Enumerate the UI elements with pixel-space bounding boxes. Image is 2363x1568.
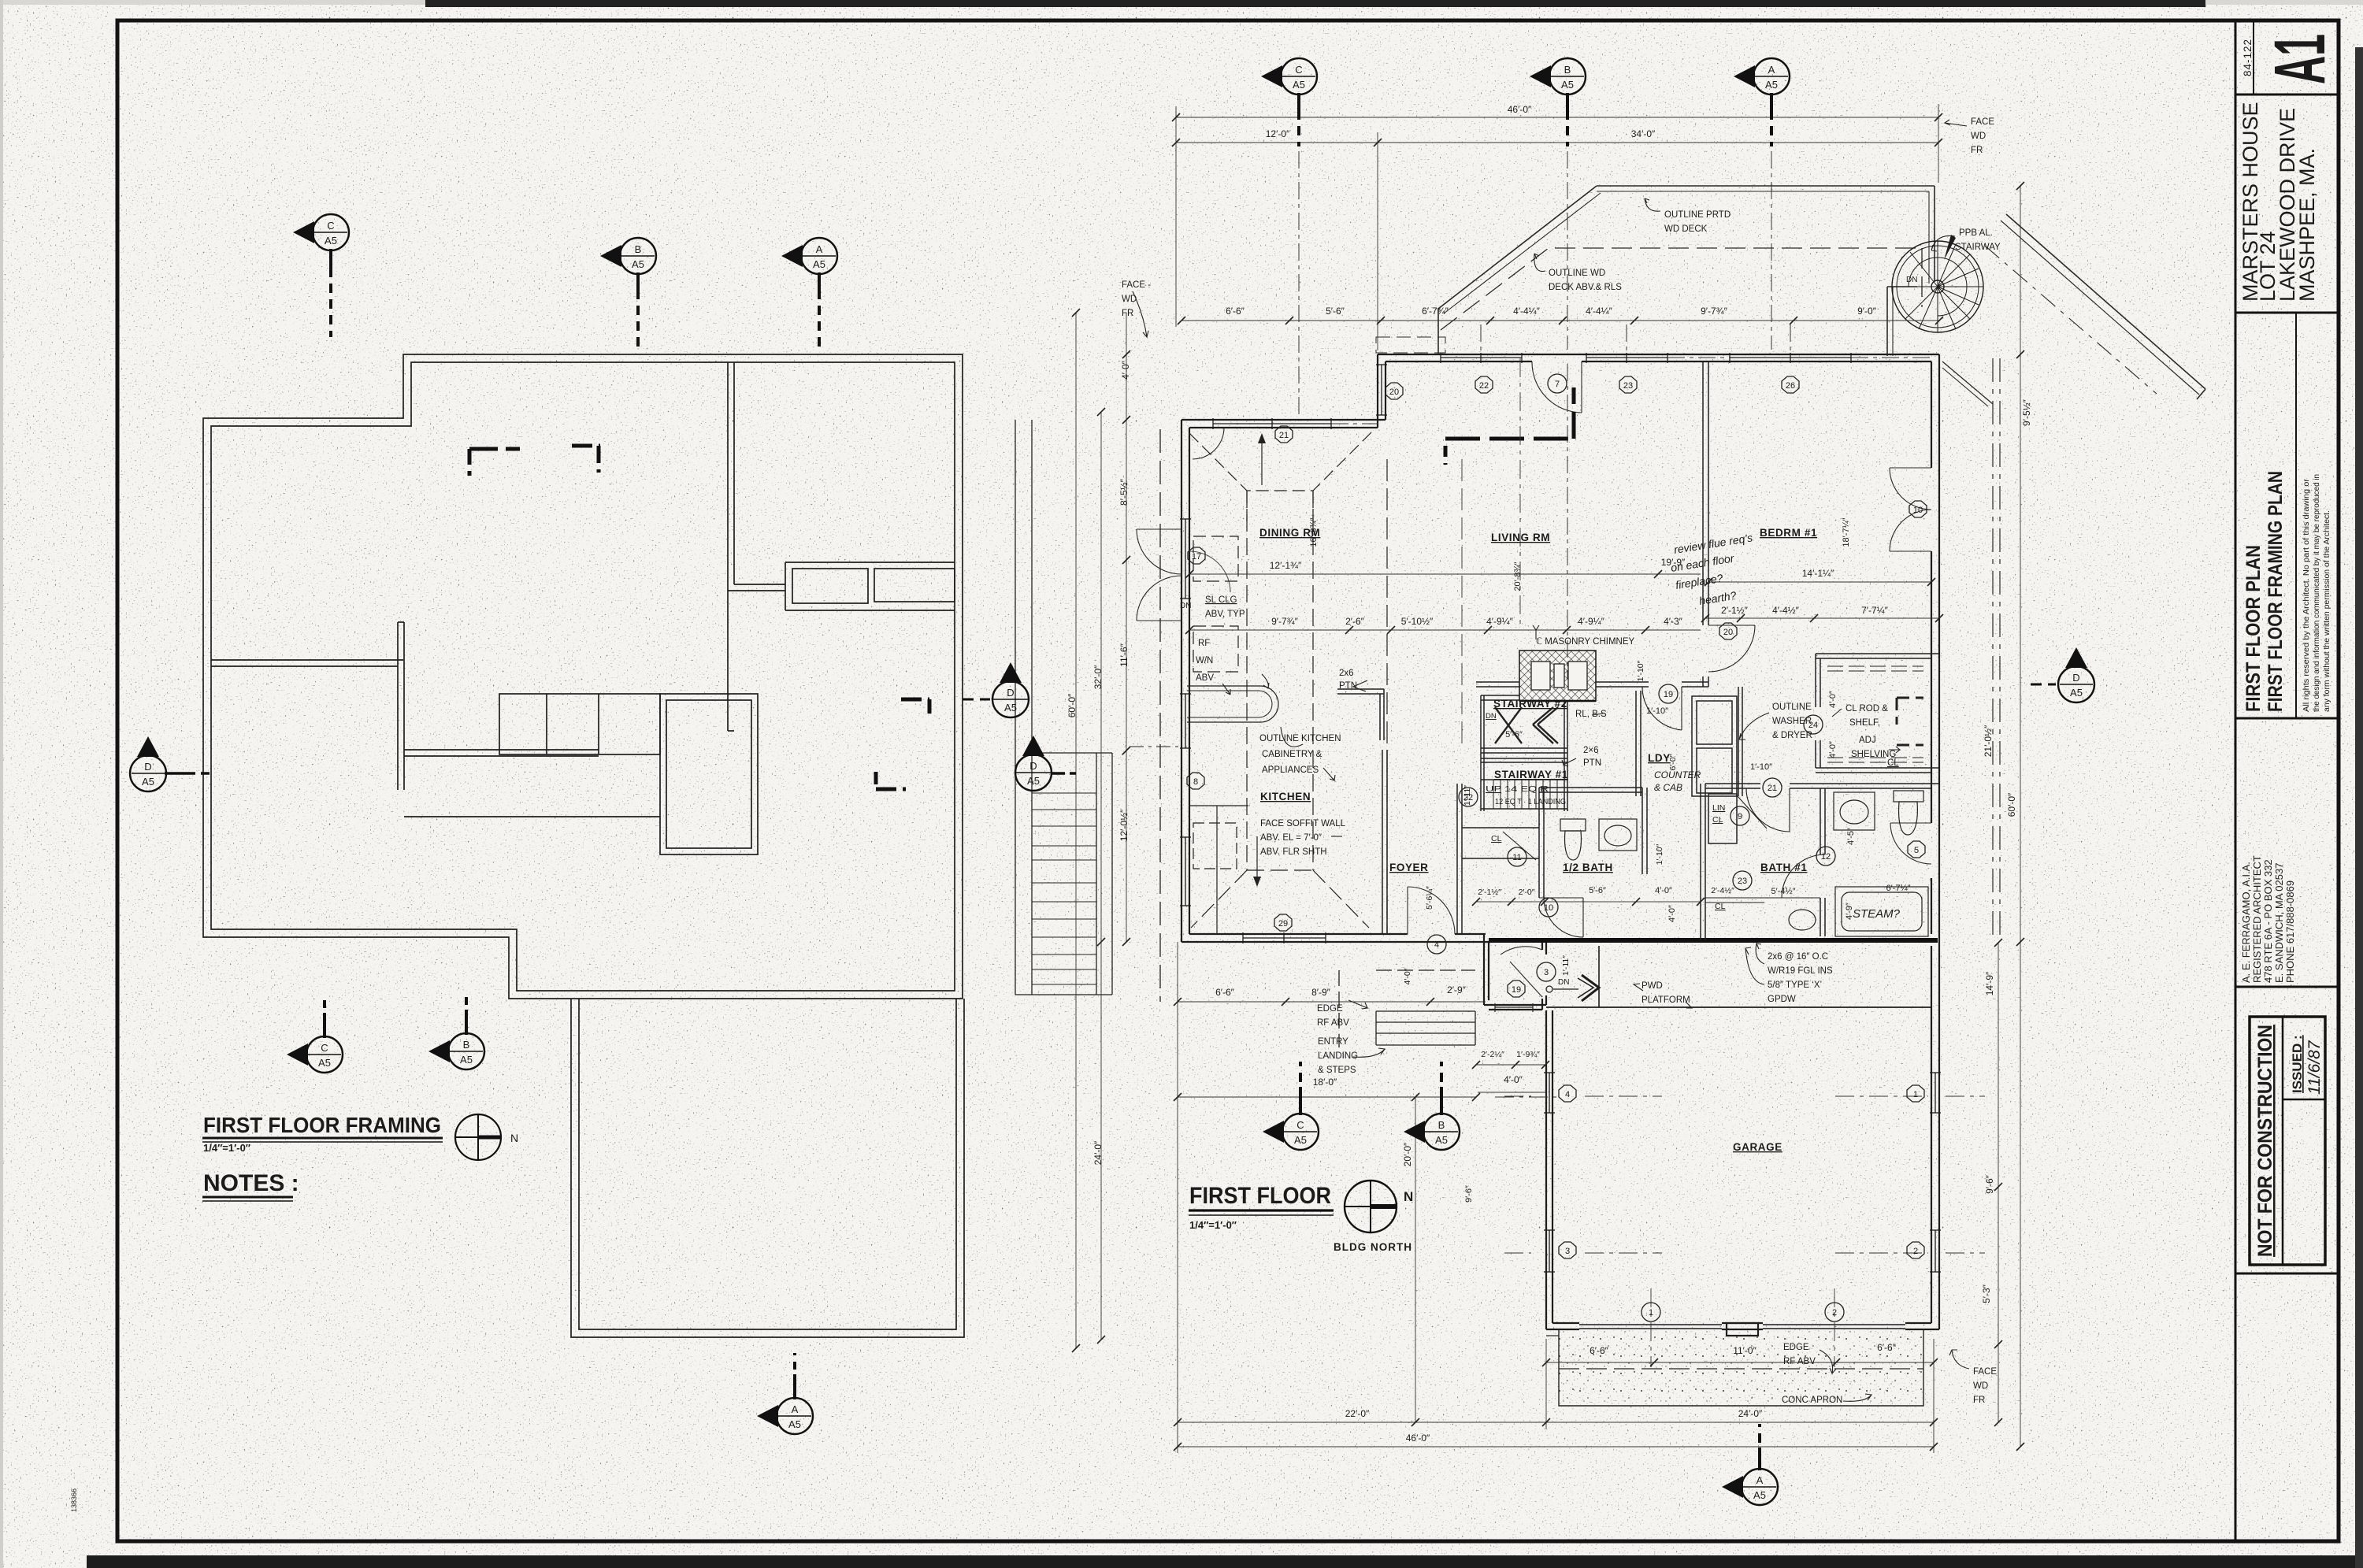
svg-text:6′-7¼″: 6′-7¼″ (1886, 884, 1910, 893)
garage south wall with 2 door openings (1546, 1329, 1579, 1330)
svg-text:C: C (1295, 64, 1302, 76)
svg-text:BEDRM #1: BEDRM #1 (1760, 527, 1817, 539)
dining north wall (1181, 419, 1386, 421)
svg-text:2: 2 (1832, 1308, 1837, 1318)
svg-text:24′-0″: 24′-0″ (1738, 1408, 1763, 1419)
svg-text:A: A (792, 1403, 799, 1415)
svg-text:1′-10″: 1′-10″ (1655, 843, 1664, 865)
svg-text:23: 23 (1738, 877, 1747, 886)
svg-text:ABV: ABV (1196, 673, 1214, 683)
svg-text:WD: WD (1973, 1381, 1988, 1391)
svg-text:CL: CL (1712, 815, 1723, 825)
svg-text:9′-5½″: 9′-5½″ (2021, 398, 2032, 426)
center-bottom room (660, 694, 758, 854)
svg-text:4′-4¼″: 4′-4¼″ (1586, 306, 1613, 317)
dashed deck above outline (1441, 248, 1922, 330)
svg-text:4: 4 (1565, 1090, 1570, 1099)
chimney (1519, 651, 1596, 701)
svg-text:PWD: PWD (1641, 981, 1663, 991)
svg-text:A5: A5 (813, 258, 825, 270)
svg-text:FR: FR (1122, 309, 1133, 318)
svg-text:ABV. FLR SHTH: ABV. FLR SHTH (1260, 847, 1327, 857)
svg-text:2′-1½″: 2′-1½″ (1721, 605, 1749, 616)
interior partitions (1337, 361, 1939, 940)
svg-text:A5: A5 (1561, 79, 1574, 91)
handwritten notes (1654, 531, 1901, 921)
svg-text:B: B (1438, 1119, 1445, 1131)
2x6 ptn dining/kitchen (1337, 688, 1384, 690)
svg-text:ISSUED :: ISSUED : (2290, 1035, 2305, 1093)
main plan bottom B (1404, 1062, 1460, 1150)
svg-text:5′-4½″: 5′-4½″ (1771, 887, 1795, 896)
svg-text:2x6 @ 16″ O.C: 2x6 @ 16″ O.C (1768, 952, 1828, 962)
svg-text:1′-9¾″: 1′-9¾″ (1516, 1050, 1540, 1059)
dim tick marks (slashes) (1072, 113, 2024, 1451)
svg-text:PHONE 617/888-0869: PHONE 617/888-0869 (2284, 880, 2296, 983)
svg-text:PLATFORM: PLATFORM (1641, 995, 1690, 1005)
svg-text:EDGE: EDGE (1783, 1343, 1809, 1352)
thick L balcony line living room (1445, 387, 1574, 465)
svg-text:14′-1¼″: 14′-1¼″ (1802, 568, 1834, 579)
svg-text:24′-0″: 24′-0″ (1092, 1140, 1104, 1165)
svg-text:11/6/87: 11/6/87 (2306, 1040, 2324, 1095)
svg-text:4′-0″: 4′-0″ (1504, 1074, 1523, 1085)
dashed chimney marks in framing (469, 446, 600, 476)
framing top C (293, 214, 349, 337)
bottom lines (1178, 1422, 1934, 1423)
framing interior walls (211, 362, 955, 854)
svg-text:LIN: LIN (1712, 803, 1725, 813)
stair block rails (1480, 695, 1482, 811)
NW corner vertical w/ window 20 (1377, 354, 1378, 428)
svg-text:PTN: PTN (1583, 758, 1601, 768)
svg-text:4′-9¼″: 4′-9¼″ (1486, 616, 1514, 627)
svg-text:FACE SOFFIT WALL: FACE SOFFIT WALL (1260, 819, 1346, 828)
top window dim line (1181, 320, 1939, 321)
bottom divider (2235, 1273, 2339, 1275)
rotated dimension texts (1067, 360, 2032, 1303)
svg-text:CL ROD &: CL ROD & (1846, 704, 1888, 714)
svg-text:29: 29 (1278, 919, 1288, 929)
svg-text:NOT FOR CONSTRUCTION: NOT FOR CONSTRUCTION (2254, 1025, 2276, 1257)
svg-text:1/4″=1′-0″: 1/4″=1′-0″ (203, 1142, 250, 1154)
1/2 bath sink (1599, 819, 1637, 851)
svg-text:9′-7¾″: 9′-7¾″ (1701, 306, 1728, 317)
svg-text:4′-5″: 4′-5″ (1846, 828, 1856, 845)
svg-text:A5: A5 (632, 258, 644, 270)
svg-text:ADJ: ADJ (1859, 736, 1876, 745)
svg-text:1/4″=1′-0″: 1/4″=1′-0″ (1189, 1219, 1237, 1231)
bath1 toilet (1894, 791, 1923, 802)
door 10 double french (east) (1890, 467, 1931, 469)
washer/dryer closet (1692, 696, 1737, 796)
svg-text:21′-0½″: 21′-0½″ (1983, 725, 1994, 757)
svg-text:60′-0″: 60′-0″ (1067, 693, 1078, 717)
garage west windows (1549, 1073, 1550, 1113)
svg-text:D: D (144, 761, 151, 773)
svg-text:23: 23 (1623, 381, 1633, 391)
dashed rf edge line left of plan (1159, 429, 1161, 1002)
D marker right (2031, 647, 2094, 702)
leader arrows / squiggles (1133, 120, 1969, 1401)
svg-text:84-122: 84-122 (2242, 39, 2254, 76)
garage door sills (1579, 1324, 1722, 1325)
door 5 east bath (1890, 822, 1931, 824)
svg-text:DN: DN (1486, 712, 1497, 721)
room labels (1259, 527, 1817, 1153)
svg-text:4′-0″: 4′-0″ (1655, 886, 1672, 895)
svg-text:DN: DN (1180, 602, 1191, 610)
stairway 2 X braces (1495, 707, 1558, 743)
svg-text:6′-6″: 6′-6″ (1877, 1342, 1897, 1353)
svg-text:LIVING RM: LIVING RM (1491, 532, 1550, 543)
project block (2235, 312, 2339, 314)
svg-text:2′-0″: 2′-0″ (1519, 888, 1535, 897)
svg-text:WD: WD (1971, 132, 1986, 141)
interior dim row 2 (1189, 629, 1701, 631)
svg-text:FIRST FLOOR PLAN: FIRST FLOOR PLAN (2242, 545, 2265, 712)
landing lines (1481, 747, 1567, 749)
svg-text:8′-9″: 8′-9″ (1311, 987, 1331, 998)
platform line (1546, 1006, 1931, 1008)
D marker far left (130, 736, 210, 791)
svg-text:32′-0″: 32′-0″ (1092, 665, 1104, 689)
svg-text:22′-0″: 22′-0″ (1345, 1408, 1370, 1419)
plan title block (2235, 717, 2339, 720)
svg-text:9: 9 (1738, 812, 1742, 821)
west wall (1181, 420, 1182, 942)
svg-text:20: 20 (1723, 628, 1733, 637)
svg-text:2×6: 2×6 (1583, 746, 1599, 755)
garage walls (1546, 942, 1939, 1336)
vanity / closet line (1705, 897, 1820, 899)
south wall kitchen/foyer (1181, 941, 1489, 943)
svg-text:4′-4¼″: 4′-4¼″ (1513, 306, 1541, 317)
window 20 vertical (1381, 365, 1382, 415)
svg-text:BLDG NORTH: BLDG NORTH (1334, 1241, 1412, 1253)
main plan top C (1261, 58, 1317, 146)
svg-text:NOTES :: NOTES : (203, 1170, 299, 1196)
svg-text:OUTLINE WD: OUTLINE WD (1549, 269, 1605, 278)
bath #1 top wall w/ door 21 gap (1705, 783, 1760, 784)
svg-text:5′-10½″: 5′-10½″ (1401, 616, 1434, 627)
svg-text:5′-6″: 5′-6″ (1326, 306, 1345, 317)
garage east windows (1935, 1073, 1936, 1113)
svg-text:APPLIANCES: APPLIANCES (1262, 765, 1319, 775)
svg-text:4′-0″: 4′-0″ (1120, 360, 1131, 380)
svg-text:5′-6″: 5′-6″ (1505, 730, 1523, 740)
bedroom closet (1816, 653, 1939, 654)
vanity sink (1789, 910, 1816, 930)
hall/stair top wall (1476, 681, 1649, 683)
svg-text:A: A (1756, 1474, 1764, 1486)
svg-text:STEAM?: STEAM? (1853, 907, 1901, 921)
svg-text:WD DECK: WD DECK (1664, 224, 1708, 234)
svg-text:FIRST FLOOR FRAMING PLAN: FIRST FLOOR FRAMING PLAN (2265, 471, 2287, 712)
foyer east wall (1456, 784, 1458, 934)
extension verticals bottom (1177, 942, 1178, 1453)
svg-text:2′-1½″: 2′-1½″ (1478, 888, 1501, 897)
framing top A (781, 238, 837, 347)
svg-text:19: 19 (1512, 985, 1521, 995)
wall D y=952 (404, 749, 599, 751)
svg-text:FIRST FLOOR: FIRST FLOOR (1189, 1183, 1331, 1209)
firewall (house/garage) (1489, 938, 1938, 943)
architect block (2235, 986, 2339, 988)
kitchen counter U (1187, 686, 1278, 722)
svg-text:10: 10 (1913, 506, 1923, 515)
svg-text:CL: CL (1491, 834, 1502, 843)
svg-text:OUTLINE: OUTLINE (1772, 702, 1812, 712)
svg-text:2′-2¼″: 2′-2¼″ (1481, 1050, 1504, 1059)
svg-text:N: N (1404, 1189, 1413, 1204)
kitchen/foyer wall (1382, 750, 1383, 934)
wall C vertical x=508 (397, 622, 399, 790)
kitchen dashed cabinetry (1189, 432, 1462, 934)
svg-text:9′-0″: 9′-0″ (1857, 306, 1877, 317)
svg-text:All rights reserved by the Arc: All rights reserved by the Architect. No… (2302, 478, 2311, 712)
svg-text:SHELF,: SHELF, (1849, 718, 1880, 728)
svg-text:RF ABV: RF ABV (1317, 1018, 1349, 1028)
west double doors (outswing) (1137, 528, 1181, 530)
svg-text:& DRYER: & DRYER (1772, 731, 1812, 740)
north wall outer (1378, 354, 1939, 355)
long diagonal top right (2006, 214, 2205, 389)
svg-text:EDGE: EDGE (1317, 1004, 1343, 1014)
bedroom west wall w/ door gap (1702, 361, 1704, 625)
door 7 (north) (1581, 361, 1582, 413)
svg-text:OUTLINE KITCHEN: OUTLINE KITCHEN (1259, 734, 1341, 743)
svg-text:W/N: W/N (1196, 656, 1213, 665)
svg-text:4′-0″: 4′-0″ (1828, 691, 1838, 708)
kitchen lower cab line (1189, 805, 1248, 806)
dashed chimney marks framing lower (876, 699, 929, 789)
svg-text:1′-11″: 1′-11″ (1463, 785, 1472, 806)
svg-text:16′-8¾″: 16′-8¾″ (1309, 517, 1319, 547)
svg-text:A1: A1 (2260, 34, 2340, 84)
svg-text:RF ABV: RF ABV (1783, 1357, 1816, 1366)
north arrow (framing) (455, 1114, 501, 1160)
svg-text:CONC APRON: CONC APRON (1782, 1396, 1842, 1405)
svg-text:22: 22 (1479, 381, 1489, 391)
svg-text:RF: RF (1198, 639, 1210, 648)
svg-text:STAIRWAY #1: STAIRWAY #1 (1494, 769, 1568, 780)
entry landing steps (1339, 970, 1475, 1047)
svg-text:D: D (2072, 672, 2079, 684)
svg-text:60′-0″: 60′-0″ (2006, 792, 2017, 817)
foyer closet (1462, 827, 1539, 828)
svg-text:6′-6″: 6′-6″ (1590, 1345, 1609, 1356)
svg-text:& CAB: & CAB (1654, 782, 1682, 793)
svg-text:20′-0″: 20′-0″ (1402, 1142, 1413, 1166)
main plan top A (1734, 58, 1790, 146)
platform entry chevron (1582, 975, 1599, 1001)
svg-text:LDY: LDY (1648, 752, 1671, 764)
svg-text:12 EQ T · 1 LANDING: 12 EQ T · 1 LANDING (1495, 797, 1566, 806)
svg-text:N: N (510, 1132, 518, 1144)
svg-text:A5: A5 (1293, 79, 1305, 91)
1/2 bath (1538, 788, 1540, 898)
svg-text:21: 21 (1279, 431, 1289, 440)
framing outer wall, outer line (203, 354, 963, 999)
dining arrow up (1258, 433, 1266, 485)
svg-text:FR: FR (1973, 1396, 1985, 1405)
svg-text:the design and information com: the design and information communicated … (2312, 474, 2321, 712)
svg-text:18′-7¼″: 18′-7¼″ (1842, 517, 1851, 547)
svg-text:FIRST FLOOR FRAMING: FIRST FLOOR FRAMING (203, 1113, 441, 1137)
svg-text:1′-10″: 1′-10″ (1636, 660, 1645, 681)
main plan bottom A (garage) (1722, 1424, 1778, 1505)
spiral stair (1892, 235, 1983, 332)
not for construction box (2250, 1017, 2325, 1265)
deck outline (1376, 186, 2205, 940)
svg-text:34′-0″: 34′-0″ (1631, 128, 1656, 139)
framing bottom B (428, 991, 484, 1069)
door 20 arc into bedroom (1708, 625, 1755, 672)
svg-text:SL CLG: SL CLG (1205, 595, 1237, 605)
main plan top B (1530, 58, 1586, 146)
svg-text:ABV, TYP: ABV, TYP (1205, 610, 1245, 619)
svg-text:2x6: 2x6 (1339, 669, 1354, 678)
closet row in right room (785, 562, 955, 563)
door 17 west dining (inswing small) (1189, 551, 1230, 592)
svg-text:46′-0″: 46′-0″ (1508, 104, 1532, 115)
svg-text:CL: CL (1887, 758, 1899, 768)
D marker mid (between plans) (963, 662, 1029, 717)
svg-text:ENTRY: ENTRY (1318, 1037, 1348, 1047)
wall jog y=742 (734, 584, 785, 585)
svg-text:1: 1 (1913, 1090, 1918, 1099)
svg-text:STAIRWAY: STAIRWAY (1955, 243, 2001, 252)
svg-text:A5: A5 (1765, 79, 1778, 91)
svg-text:3: 3 (1544, 968, 1549, 977)
svg-text:1′-11″: 1′-11″ (1561, 955, 1571, 976)
door arcs (1137, 361, 1931, 1012)
D marker lower (at deck stair) (1015, 736, 1076, 791)
svg-text:PPB AL.: PPB AL. (1959, 228, 1993, 238)
bath1 sink top (1834, 792, 1875, 830)
framing plan titles (202, 1113, 518, 1201)
svg-text:2: 2 (1913, 1247, 1918, 1256)
svg-text:E. SANDWICH, MA 02537: E. SANDWICH, MA 02537 (2273, 863, 2285, 983)
svg-text:10: 10 (1544, 903, 1553, 913)
hall walls to bath (1635, 691, 1637, 796)
title block left edge (2235, 20, 2237, 1541)
svg-text:12′-0½″: 12′-0½″ (1118, 809, 1130, 841)
svg-text:D: D (1029, 760, 1037, 772)
svg-text:DN: DN (1906, 276, 1917, 284)
wall y=1037 (404, 816, 660, 817)
door 4 (foyer south) (1407, 887, 1408, 934)
svg-text:19: 19 (1664, 690, 1673, 699)
svg-text:46′-0″: 46′-0″ (1406, 1433, 1430, 1444)
svg-text:5: 5 (1914, 846, 1919, 855)
kitchen arrow down (1253, 836, 1261, 887)
svg-text:B: B (1564, 64, 1571, 76)
svg-text:REGISTERED ARCHITECT: REGISTERED ARCHITECT (2251, 855, 2263, 983)
svg-text:9′-6″: 9′-6″ (1464, 1185, 1474, 1203)
bath1 tub (1835, 887, 1928, 936)
svg-text:FOYER: FOYER (1389, 862, 1429, 873)
west wall windows (1185, 519, 1186, 599)
svg-text:CL: CL (1715, 902, 1726, 911)
A1 box divider (2235, 94, 2339, 96)
svg-text:MASHPEE, MA.: MASHPEE, MA. (2295, 148, 2319, 302)
svg-text:ℂ MASONRY CHIMNEY: ℂ MASONRY CHIMNEY (1536, 637, 1635, 647)
svg-text:5′-3″: 5′-3″ (1981, 1284, 1992, 1303)
windows: north wall (1180, 353, 1941, 1272)
framing outer wall, inner line (211, 362, 955, 991)
svg-text:7: 7 (1555, 380, 1560, 389)
svg-text:21: 21 (1768, 784, 1777, 793)
svg-text:7′-7¼″: 7′-7¼″ (1861, 605, 1889, 616)
svg-text:DECK ABV.& RLS: DECK ABV.& RLS (1549, 283, 1622, 292)
svg-text:A5: A5 (1753, 1489, 1766, 1501)
svg-text:STAIRWAY #2: STAIRWAY #2 (1493, 698, 1567, 710)
deck rail left of spiral (1886, 287, 1888, 356)
svg-text:5′-6¼″: 5′-6¼″ (1425, 886, 1434, 910)
wall centerline dashdots (1299, 151, 1931, 679)
bath #1 left wall (1700, 784, 1701, 940)
svg-text:FACE: FACE (1973, 1367, 1997, 1377)
34'/12' line (1176, 142, 1938, 143)
hexagons (1187, 376, 1927, 1258)
entry notch (1483, 934, 1485, 1005)
svg-text:GPDW: GPDW (1768, 995, 1796, 1004)
svg-text:OUTLINE PRTD: OUTLINE PRTD (1664, 210, 1731, 220)
svg-text:FR: FR (1971, 146, 1983, 155)
bath mid wall w/ door 12 gap (1820, 788, 1821, 854)
right chains (2020, 186, 2021, 1447)
svg-text:WASHER: WASHER (1772, 717, 1812, 726)
framing top B (600, 238, 656, 347)
svg-text:2′-4½″: 2′-4½″ (1711, 886, 1734, 895)
svg-text:20: 20 (1389, 387, 1399, 397)
wall A vertical x=924 (727, 362, 729, 731)
svg-text:A5: A5 (1027, 775, 1040, 787)
svg-text:478 RTE 6A - PO BOX 332: 478 RTE 6A - PO BOX 332 (2262, 859, 2274, 983)
svg-text:C: C (321, 1042, 328, 1054)
svg-text:5′-6″: 5′-6″ (1589, 886, 1606, 895)
svg-text:GARAGE: GARAGE (1733, 1141, 1782, 1153)
concrete apron (1546, 1329, 1923, 1406)
svg-text:1/2 BATH: 1/2 BATH (1563, 862, 1613, 873)
1/2 bath toilet (1560, 819, 1586, 831)
svg-text:B: B (463, 1039, 470, 1051)
dashed box above north wall (1376, 337, 1445, 353)
svg-text:12: 12 (1821, 852, 1831, 862)
svg-text:RL, B.S: RL, B.S (1575, 710, 1607, 719)
deck edge right side dashed verticals (1993, 358, 2000, 940)
svg-text:FACE: FACE (1971, 117, 1994, 127)
main plan bottom C (1263, 1062, 1319, 1150)
svg-text:12′-1¾″: 12′-1¾″ (1270, 560, 1302, 571)
svg-text:A5: A5 (318, 1057, 331, 1069)
svg-text:20′-8¾″: 20′-8¾″ (1513, 562, 1523, 591)
svg-text:6′-0″: 6′-0″ (1668, 754, 1678, 770)
svg-text:LANDING: LANDING (1318, 1051, 1358, 1061)
46' line (1176, 117, 1938, 118)
svg-text:11: 11 (1512, 853, 1521, 862)
svg-text:6′-7¾″: 6′-7¾″ (1422, 306, 1449, 317)
svg-text:C: C (1296, 1119, 1304, 1131)
south wall window 29 (1243, 937, 1326, 939)
svg-text:2′-6″: 2′-6″ (1345, 616, 1365, 627)
framing bottom A (757, 1353, 813, 1434)
svg-text:14′-9″: 14′-9″ (1984, 971, 1995, 995)
svg-text:4: 4 (1434, 940, 1439, 950)
svg-text:12′-0″: 12′-0″ (1266, 128, 1290, 139)
